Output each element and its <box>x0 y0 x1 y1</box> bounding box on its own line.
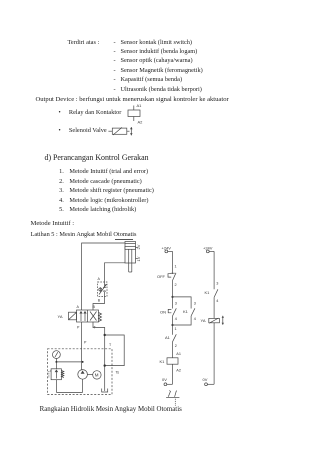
junction dot pump/P-line tee <box>82 361 84 363</box>
svg-text:4: 4 <box>194 317 196 321</box>
+24V terminal right <box>203 245 214 253</box>
svg-text:1: 1 <box>175 327 177 331</box>
spring <box>99 313 102 322</box>
0V terminal right <box>203 377 215 386</box>
svg-text:P: P <box>77 326 80 330</box>
wire OFF to junction <box>172 281 174 297</box>
svg-text:2: 2 <box>175 283 177 287</box>
svg-text:2V: 2V <box>136 244 141 249</box>
power unit dashed box <box>48 349 113 395</box>
pressure gauge <box>53 351 61 362</box>
junction node bottom <box>171 324 173 326</box>
T loop to Ts port <box>105 335 125 366</box>
wire: cylinder cap side to valve port A <box>82 243 125 310</box>
svg-text:3: 3 <box>175 301 177 305</box>
left cell parallel arrows <box>80 312 82 322</box>
svg-text:K1: K1 <box>160 359 166 364</box>
tank symbol <box>102 389 108 393</box>
junction node top <box>171 296 173 298</box>
svg-text:T: T <box>109 343 112 347</box>
svg-text:4: 4 <box>216 299 218 303</box>
junction dot gauge/relief tee <box>55 361 57 363</box>
wire: valve T down and right <box>93 322 105 391</box>
svg-text:3: 3 <box>194 301 196 305</box>
tank bus line <box>56 391 82 393</box>
svg-text:4: 4 <box>175 317 177 321</box>
junction dot T-loop bottom <box>104 364 106 366</box>
relay coil symbol (bullet Relay dan Kontaktor) <box>128 103 143 125</box>
pressure relief valve <box>49 362 64 393</box>
wire to YA coil <box>213 297 215 318</box>
svg-text:0V: 0V <box>162 377 167 382</box>
svg-text:K1: K1 <box>183 309 189 314</box>
0V terminal left <box>162 377 173 386</box>
svg-text:B: B <box>98 298 101 302</box>
limit switch mechanical marks <box>166 391 179 407</box>
svg-text:A1: A1 <box>176 352 181 356</box>
wire: flow valve to valve port B <box>93 297 105 311</box>
svg-text:A2: A2 <box>138 120 144 125</box>
flow control valve (one-way) <box>98 277 108 302</box>
svg-text:A1: A1 <box>137 103 143 108</box>
svg-text:K1: K1 <box>205 290 211 295</box>
svg-text:A1: A1 <box>165 335 171 340</box>
svg-text:M: M <box>95 373 99 378</box>
relief valve to pump line <box>56 361 82 363</box>
wire: valve P to pump <box>81 322 83 370</box>
4/2 directional valve YA <box>58 305 102 329</box>
electric motor M <box>87 371 101 379</box>
parallel branch wires <box>173 297 192 325</box>
svg-text:Ts: Ts <box>116 371 120 375</box>
left rail wire top <box>172 251 174 272</box>
svg-text:+24V: +24V <box>203 245 213 250</box>
cylinder A (vertical, rod down) <box>125 242 141 273</box>
svg-text:1: 1 <box>175 265 177 269</box>
svg-text:2: 2 <box>175 344 177 348</box>
svg-text:YA: YA <box>58 314 63 319</box>
junction dot T-loop top <box>104 334 106 336</box>
svg-text:3: 3 <box>216 281 218 285</box>
right cell crossed arrows <box>90 312 97 321</box>
svg-text:P: P <box>84 341 87 345</box>
svg-text:1V: 1V <box>136 256 141 261</box>
K1 contact NO (branch) <box>183 301 196 321</box>
document text <box>68 40 100 46</box>
wire YA to 0V <box>213 323 215 385</box>
solenoid <box>69 312 77 320</box>
svg-text:YA: YA <box>201 318 206 323</box>
solenoid valve symbol (bullet Selenoid Valve) <box>108 127 132 135</box>
wire: cylinder rod side to flow control valve <box>105 263 126 282</box>
+24V terminal left <box>162 245 173 253</box>
svg-text:B: B <box>93 305 96 309</box>
ON pushbutton NO <box>160 301 177 321</box>
K1 contact NO right rung <box>205 289 219 303</box>
A1 limit switch contact NO <box>165 325 177 351</box>
relay coil K1 <box>160 351 181 384</box>
svg-text:ON: ON <box>160 310 166 315</box>
svg-text:0V: 0V <box>203 377 208 382</box>
svg-text:OFF: OFF <box>157 274 166 279</box>
svg-text:A: A <box>77 305 80 309</box>
svg-text:A2: A2 <box>176 369 181 373</box>
solenoid coil YA <box>201 316 225 325</box>
right rail wire top <box>213 251 215 289</box>
svg-text:A: A <box>98 277 101 281</box>
OFF pushbutton NC <box>157 273 176 281</box>
svg-text:+24V: +24V <box>162 245 172 250</box>
hydraulic pump <box>78 370 88 393</box>
